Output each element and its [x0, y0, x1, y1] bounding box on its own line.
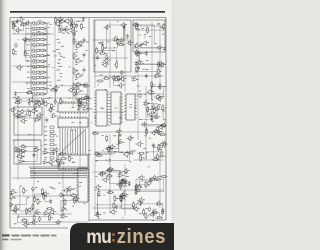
svg-text:mu: mu — [86, 225, 111, 247]
svg-text:zines: zines — [117, 225, 166, 248]
